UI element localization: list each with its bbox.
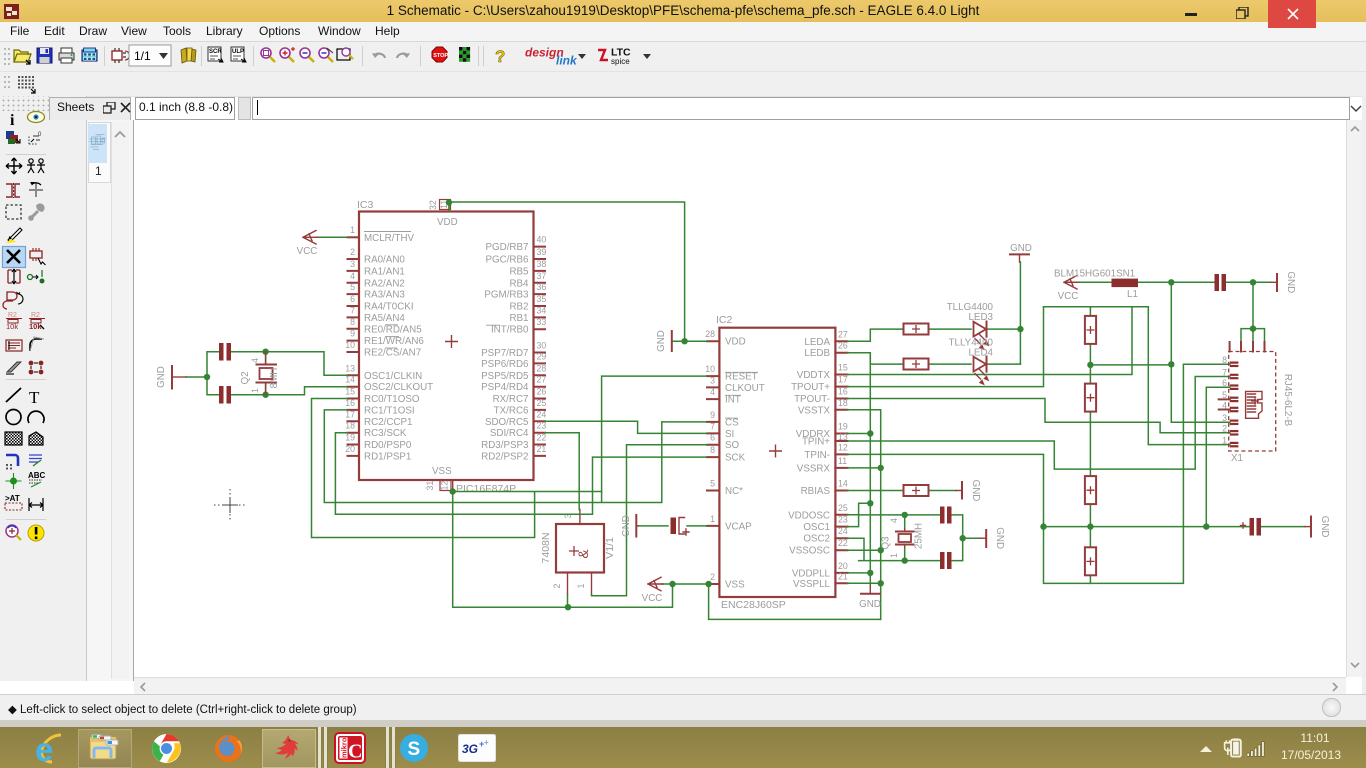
svg-text:TPOUT+: TPOUT+ (791, 382, 830, 393)
svg-text:27: 27 (537, 375, 547, 385)
r14: circle / arc (6, 410, 21, 425)
svg-text:26: 26 (838, 341, 848, 351)
IC3 top power pin 32/11 (428, 200, 451, 212)
svg-text:RB1: RB1 (509, 313, 528, 324)
wire VDD net IC3 top to IC2 pin28 (449, 202, 707, 341)
wire net RC0 to VSS loop (312, 399, 602, 538)
svg-text:RA5/AN4: RA5/AN4 (364, 313, 405, 324)
svg-text:6: 6 (1222, 378, 1227, 388)
svg-text:12: 12 (440, 481, 450, 491)
svg-text:RD3/PSP3: RD3/PSP3 (481, 440, 529, 451)
resistor R LED3 row (904, 324, 929, 335)
wire VCAP cap to IC2 pin1 (687, 525, 707, 527)
mikroC (317, 727, 322, 768)
svg-text:PSP4/RD4: PSP4/RD4 (481, 382, 529, 393)
zoom redraw (337, 48, 353, 60)
left tool palette (0, 96, 87, 681)
svg-text:2: 2 (1222, 424, 1227, 434)
svg-text:VCAP: VCAP (725, 521, 752, 532)
junction nodes crystal Q3 (902, 512, 966, 564)
7408N pin 2 (552, 573, 568, 595)
svg-text:14: 14 (838, 479, 848, 489)
wire TPOUT- to RJ45 pin2 (848, 399, 1230, 433)
resistor R RBIAS (904, 485, 929, 496)
junction nodes VDDRX GND column (867, 430, 873, 576)
GND symbol top of LED column (1010, 243, 1032, 262)
svg-text:23: 23 (537, 421, 547, 431)
SCR (208, 47, 223, 62)
svg-text:RC0/T1OSO: RC0/T1OSO (364, 394, 420, 405)
Firefox (213, 733, 244, 764)
sep (201, 46, 202, 66)
svg-text:6: 6 (350, 294, 355, 304)
wire net VSS bottom IC3 to 7408N pin2 to IC2 VSS (453, 490, 673, 607)
junction nodes resistor mid row (1087, 361, 1174, 368)
LED4 TLLY4400 (949, 338, 994, 385)
svg-text:TPOUT-: TPOUT- (794, 394, 830, 405)
svg-text:26: 26 (537, 387, 547, 397)
wire LEDA jog (848, 329, 903, 341)
wire L1 junction down to resistor mid and RJ45 pin3 (1171, 282, 1230, 422)
svg-text:29: 29 (537, 351, 547, 361)
svg-text:RC1/T1OSI: RC1/T1OSI (364, 405, 415, 416)
wire TPIN- to bottom rail to RJ45 pin8 (848, 364, 1230, 583)
IC2 ENC28J60SP body (716, 314, 835, 611)
svg-text:X1: X1 (1231, 453, 1243, 464)
wire VSS row down to bottom rail (709, 584, 881, 619)
wire GND to VCAP cap (638, 525, 668, 527)
GND symbol at Q3 (980, 527, 1005, 549)
wire net RC3 SCK (335, 433, 707, 515)
svg-text:OSC2: OSC2 (803, 534, 830, 545)
svg-text:RE0/RD/AN5: RE0/RD/AN5 (364, 324, 422, 335)
connector X1 jack icon (1246, 391, 1262, 418)
svg-text:VSS: VSS (725, 580, 745, 591)
wire VCC to IC2 VSS row (662, 583, 708, 585)
resistor R3 network (1085, 476, 1096, 504)
r18: attribute / dimension (5, 494, 22, 510)
svg-text:GND: GND (656, 330, 667, 352)
separators (6, 155, 46, 520)
svg-text:VSSRX: VSSRX (797, 463, 831, 474)
GND symbol left of IC2 pin28 (656, 330, 672, 352)
junction node shield (1250, 325, 1256, 331)
scrollbars (1346, 120, 1363, 677)
board (112, 48, 130, 63)
wire RJ45 pin6 vertical to caps row (1206, 387, 1230, 526)
svg-text:2: 2 (350, 247, 355, 257)
GND symbol bottom right (1305, 516, 1330, 538)
svg-text:GND: GND (859, 599, 881, 610)
svg-text:6: 6 (710, 433, 715, 443)
zoom fit (261, 48, 275, 62)
svg-text:38: 38 (537, 259, 547, 269)
GND symbol at RBIAS (956, 480, 981, 502)
svg-text:28: 28 (537, 363, 547, 373)
r4: copy / rotate (6, 183, 20, 198)
svg-text:1: 1 (1222, 435, 1227, 445)
wire LED3 row resistor to cathode junction (930, 328, 1020, 330)
layer combo (129, 45, 171, 66)
zoom in (280, 47, 295, 62)
svg-text:1: 1 (250, 388, 260, 393)
svg-text:LEDB: LEDB (804, 348, 830, 359)
svg-text:RX/RC7: RX/RC7 (493, 394, 529, 405)
svg-text:4: 4 (889, 518, 899, 523)
junction nodes caps row (1040, 523, 1209, 529)
svg-text:GND: GND (621, 515, 632, 537)
svg-text:SO: SO (725, 440, 740, 451)
tray (1198, 743, 1214, 755)
IC3 PIC16F874P body (357, 199, 534, 495)
svg-text:19: 19 (345, 433, 355, 443)
svg-text:11: 11 (838, 456, 847, 466)
svg-text:PSP7/RD7: PSP7/RD7 (481, 348, 528, 359)
IC3 left pins 13-20 (345, 363, 433, 462)
wire VSSTX VSS column (848, 410, 881, 620)
junction nodes IC2 VSS row (669, 581, 712, 587)
svg-text:SI: SI (725, 429, 734, 440)
svg-text:VDDPLL: VDDPLL (792, 568, 831, 579)
r19: erc / errors (6, 525, 21, 540)
svg-text:36: 36 (537, 282, 547, 292)
svg-text:RB4: RB4 (509, 278, 529, 289)
svg-text:RA4/T0CKI: RA4/T0CKI (364, 302, 414, 313)
svg-text:RC2/CCP1: RC2/CCP1 (364, 417, 412, 428)
wire caps row bottom right (1044, 526, 1306, 528)
svg-text:1: 1 (350, 225, 355, 235)
wire VCC to IC3 pin1 (316, 236, 348, 238)
svg-text:1: 1 (710, 514, 715, 524)
svg-text:VCC: VCC (1058, 291, 1079, 302)
AND gate V1 7408N body (540, 524, 616, 573)
r9: gateswap (3, 292, 23, 309)
svg-text:20: 20 (345, 444, 355, 454)
svg-text:VSSTX: VSSTX (798, 405, 831, 416)
svg-text:13: 13 (838, 432, 848, 442)
Chrome (151, 733, 182, 764)
svg-text:3: 3 (350, 259, 355, 269)
print (59, 48, 74, 63)
svg-text:LED4: LED4 (968, 348, 993, 359)
wire TPOUT+ to rail (848, 307, 1044, 387)
svg-text:RA2/AN2: RA2/AN2 (364, 278, 405, 289)
svg-text:RBIAS: RBIAS (801, 486, 831, 497)
svg-text:9: 9 (350, 329, 355, 339)
svg-text:40: 40 (537, 235, 547, 245)
wire resistor column verticals (1089, 307, 1091, 584)
redo (397, 53, 410, 58)
wire crystal Q3 top rail (848, 515, 963, 538)
svg-text:16: 16 (838, 387, 848, 397)
svg-text:CS: CS (725, 417, 739, 428)
svg-text:RD1/PSP1: RD1/PSP1 (364, 451, 411, 462)
GND symbol at VCAP (621, 515, 638, 537)
capacitor C top of Q3 (940, 507, 952, 524)
svg-text:4: 4 (710, 387, 715, 397)
junction nodes VSS net (450, 488, 572, 610)
eagle app icon (4, 4, 19, 19)
svg-text:15: 15 (838, 363, 848, 373)
svg-text:2: 2 (710, 572, 715, 582)
svg-text:35: 35 (537, 294, 547, 304)
svg-text:OSC2/CLKOUT: OSC2/CLKOUT (364, 382, 433, 393)
svg-text:GND: GND (994, 527, 1005, 549)
svg-text:GND: GND (1285, 271, 1296, 293)
zoom select (319, 48, 333, 62)
wire LEDB jog (848, 353, 903, 364)
svg-text:C: C (348, 741, 362, 763)
cam export (82, 48, 97, 61)
svg-text:8MH: 8MH (269, 368, 280, 389)
svg-text:PSP5/RD5: PSP5/RD5 (481, 371, 529, 382)
svg-text:RB2: RB2 (509, 302, 528, 313)
svg-text:25MH: 25MH (914, 523, 925, 549)
svg-text:S: S (408, 739, 421, 760)
junction nodes L1 row (1168, 279, 1256, 285)
svg-text:5: 5 (350, 282, 355, 292)
r17: junction / label (6, 473, 22, 489)
menu bar (0, 22, 1366, 42)
svg-text:RESET: RESET (725, 372, 758, 383)
svg-text:24: 24 (537, 409, 547, 419)
svg-text:TPIN+: TPIN+ (802, 437, 830, 448)
GND symbol below IC2 column (859, 586, 881, 610)
help (495, 47, 505, 66)
svg-text:MCLR/THV: MCLR/THV (364, 233, 415, 244)
IC3 left pins 2-10 (345, 247, 424, 359)
svg-text:+: + (484, 738, 489, 747)
separator lines (385, 727, 390, 768)
resistor R2 network (1085, 384, 1096, 412)
svg-text:VDD: VDD (437, 217, 458, 228)
status bar (0, 694, 1366, 721)
svg-text:37: 37 (537, 271, 547, 281)
crystal Q2 8MHz (240, 352, 280, 395)
wire TPIN+ to RJ45 pin7 (848, 377, 1230, 470)
svg-text:22: 22 (838, 538, 848, 548)
capacitor at VCAP (polarized) (671, 518, 690, 536)
svg-text:18: 18 (838, 398, 848, 408)
wire resistor mid row (1090, 364, 1171, 366)
LED3 TLLG4400 (947, 302, 994, 349)
svg-text:25: 25 (537, 398, 547, 408)
svg-text:INT/RB0: INT/RB0 (491, 325, 529, 336)
connector X1 pin 5 and 4 stubs (1219, 399, 1230, 409)
r2: display / mark (6, 131, 20, 144)
svg-text:4: 4 (350, 271, 355, 281)
svg-text:3G: 3G (462, 742, 478, 756)
svg-text:7: 7 (710, 421, 715, 431)
IC3 right pins 40-33 (484, 235, 546, 336)
svg-text:Q3: Q3 (881, 536, 892, 550)
3G+ (458, 734, 496, 762)
svg-text:8: 8 (350, 317, 355, 327)
junction nodes VSS column (878, 465, 884, 587)
svg-text:33: 33 (537, 317, 547, 327)
svg-text:34: 34 (537, 305, 547, 315)
wire crystal Q3 bottom rail (848, 538, 963, 560)
svg-text:20: 20 (838, 561, 848, 571)
sep (362, 46, 363, 66)
wire crystal Q2 net (186, 352, 348, 395)
wire LED4 row (930, 363, 1020, 365)
r15: rect / polygon (5, 432, 22, 445)
svg-text:27: 27 (838, 329, 848, 339)
svg-text:12: 12 (838, 442, 848, 452)
svg-text:30: 30 (537, 341, 547, 351)
svg-text:GND: GND (1010, 243, 1032, 254)
IC3 right pins 30-21 (481, 341, 546, 463)
r8: pinswap / value (8, 269, 20, 284)
svg-text:VSSOSC: VSSOSC (789, 546, 830, 557)
open (14, 50, 31, 64)
VCC symbol at L1 (1058, 276, 1079, 303)
capacitor C top right (1215, 274, 1227, 291)
svg-text:RE1/WR/AN6: RE1/WR/AN6 (364, 336, 424, 347)
junction node LED3 cathode (1017, 326, 1023, 332)
crystal Q3 25MHz (881, 518, 925, 558)
svg-text:RA1/AN1: RA1/AN1 (364, 266, 405, 277)
svg-text:22: 22 (537, 433, 547, 443)
svg-text:NC*: NC* (725, 486, 743, 497)
svg-text:21: 21 (537, 444, 547, 454)
svg-text:1: 1 (889, 553, 899, 558)
library (181, 48, 196, 63)
svg-text:16: 16 (345, 398, 355, 408)
IC3 bottom power pin 31/12 (425, 480, 453, 491)
stop (432, 47, 448, 62)
svg-text:18: 18 (345, 421, 355, 431)
r7: delete X (selected) / replace (3, 247, 26, 268)
svg-text:VSS: VSS (432, 466, 452, 477)
svg-text:SCK: SCK (725, 453, 746, 464)
IC2 right pins (788, 329, 848, 590)
designlink (525, 46, 586, 68)
svg-text:PGD/RB7: PGD/RB7 (485, 242, 528, 253)
svg-text:VCC: VCC (297, 246, 318, 257)
toolbars (0, 42, 1366, 72)
7408N pin 3 (563, 510, 580, 525)
svg-text:10: 10 (345, 340, 355, 350)
svg-text:3: 3 (1222, 413, 1227, 423)
sep (478, 46, 479, 66)
svg-text:TPIN-: TPIN- (804, 450, 830, 461)
svg-text:BLM15HG601SN1: BLM15HG601SN1 (1054, 269, 1135, 280)
svg-text:RB5: RB5 (509, 266, 529, 277)
Explorer (78, 729, 132, 768)
wire net RC1 RESET CS (324, 376, 707, 502)
svg-text:21: 21 (838, 571, 848, 581)
wire net SDI to 7408N pin3 (545, 433, 579, 510)
sep (104, 46, 105, 66)
connector X1 contact fingers (1230, 362, 1239, 448)
svg-text:OSC1: OSC1 (803, 522, 830, 533)
save (37, 48, 52, 63)
zoom out (300, 48, 314, 62)
svg-text:9: 9 (710, 410, 715, 420)
r12: smash / pins (6, 362, 21, 374)
svg-text:V1/1: V1/1 (604, 537, 616, 559)
r6: pencil (6, 228, 22, 243)
wire RBIAS to resistor to GND (848, 490, 957, 492)
sep (253, 46, 254, 66)
svg-text:25: 25 (838, 503, 848, 513)
svg-text:L1: L1 (1127, 289, 1138, 300)
svg-text:32: 32 (428, 200, 438, 210)
svg-text:PGM/RB3: PGM/RB3 (484, 290, 529, 301)
svg-text:8: 8 (1222, 355, 1227, 365)
svg-text:7: 7 (1222, 367, 1227, 377)
svg-text:13: 13 (345, 363, 355, 373)
r11: name / miter (6, 340, 22, 351)
svg-text:PSP6/RD6: PSP6/RD6 (481, 359, 529, 370)
svg-text:5: 5 (710, 479, 715, 489)
svg-text:GND: GND (970, 480, 981, 502)
svg-text:SDO/RC5: SDO/RC5 (485, 417, 529, 428)
wire VDDRX column (848, 353, 871, 586)
junction node IC3 top pin (446, 199, 452, 205)
wire RJ45 shield bracket (1241, 282, 1265, 341)
GND symbol left of crystal Q2 (156, 366, 186, 389)
capacitor C bottom right (1241, 518, 1262, 536)
svg-text:RA0/AN0: RA0/AN0 (364, 255, 405, 266)
svg-text:RJ45-6L2-B: RJ45-6L2-B (1282, 374, 1293, 427)
svg-text:17: 17 (838, 375, 848, 385)
7408N pin 1 (576, 573, 592, 595)
ferrite bead L1 BLM15HG601SN1 (1054, 269, 1138, 301)
undo (372, 53, 385, 58)
svg-text:23: 23 (838, 515, 848, 525)
svg-text:OSC1/CLKIN: OSC1/CLKIN (364, 371, 422, 382)
canvas (134, 120, 1346, 677)
svg-text:10: 10 (705, 364, 715, 374)
svg-text:8: 8 (710, 445, 715, 455)
svg-text:LED3: LED3 (968, 312, 993, 323)
sheets panel (87, 120, 134, 681)
svg-text:GND: GND (1319, 516, 1330, 538)
svg-text:Q2: Q2 (240, 371, 251, 384)
wire VDDTX to rail vertical (848, 307, 1133, 375)
resistor R4 network (1085, 547, 1096, 575)
svg-text:15: 15 (345, 387, 355, 397)
Skype (399, 733, 429, 763)
svg-text:PGC/RB6: PGC/RB6 (485, 255, 529, 266)
capacitor C1 top of Q2 (219, 343, 231, 361)
resistor R LED4 row (904, 359, 929, 370)
taskbar (0, 727, 1366, 768)
wire Q3 GND lead (963, 537, 980, 539)
wire LED net vertical to GND top (1019, 262, 1021, 364)
svg-text:CLKOUT: CLKOUT (725, 383, 765, 394)
r3: move / group (6, 158, 22, 174)
wire VCC L1 row top right (1066, 281, 1271, 283)
IC3 pin 1 MCLR/THV (348, 225, 415, 244)
svg-text:RD2/PSP2: RD2/PSP2 (481, 451, 528, 462)
svg-text:INT: INT (725, 395, 741, 406)
svg-text:7: 7 (350, 305, 355, 315)
sep (420, 46, 421, 66)
resistor R1 network (1085, 316, 1096, 344)
svg-text:RE2/CS/AN7: RE2/CS/AN7 (364, 348, 421, 359)
svg-text:VDDOSC: VDDOSC (788, 510, 830, 521)
svg-text:14: 14 (345, 375, 355, 385)
junction nodes crystal Q2 (204, 349, 269, 398)
svg-text:17: 17 (345, 409, 355, 419)
svg-text:28: 28 (705, 329, 715, 339)
svg-text:SDI/RC4: SDI/RC4 (490, 428, 529, 439)
go (459, 47, 470, 62)
